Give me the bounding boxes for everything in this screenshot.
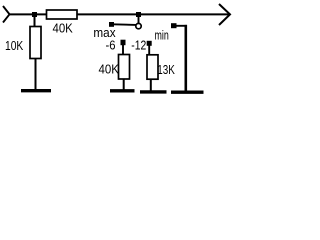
wire 10K to ground: [35, 59, 37, 90]
ground under 10K: [21, 89, 51, 92]
svg-text:-12: -12: [131, 39, 146, 53]
svg-text:10K: 10K: [5, 39, 24, 53]
switch pole circle: [136, 23, 141, 28]
switch lever wire to max: [113, 23, 136, 26]
resistor 10K: [30, 27, 41, 59]
wire series resistor to output: [77, 13, 229, 15]
svg-text:40K: 40K: [53, 21, 74, 35]
wire node to 10K: [34, 14, 36, 27]
terminal -6: [121, 40, 126, 46]
terminal -12: [147, 41, 152, 46]
wire input to series resistor: [10, 13, 48, 15]
wire 13K to ground: [150, 79, 152, 90]
svg-text:min: min: [155, 28, 169, 42]
node junction switch: [136, 12, 141, 17]
wire 40K shunt to ground: [123, 79, 125, 90]
ground right: [171, 90, 204, 93]
terminal min: [171, 23, 177, 28]
svg-text:13K: 13K: [157, 63, 175, 77]
terminal max: [109, 22, 114, 27]
svg-text:-6: -6: [106, 39, 116, 53]
resistor 40K series: [47, 10, 78, 19]
wire min terminal to right: [176, 25, 187, 27]
svg-text:40K: 40K: [99, 63, 120, 77]
node junction left: [32, 12, 37, 17]
output arrowhead: [219, 4, 230, 25]
resistor 40K shunt: [119, 55, 130, 80]
wire -12 to 13K: [148, 45, 150, 55]
ground under 13K: [140, 90, 167, 93]
wire -6 to 40K shunt: [122, 45, 124, 56]
wire min down to ground: [185, 25, 188, 91]
input arrowhead: [3, 6, 10, 23]
resistor 13K: [147, 55, 158, 79]
wire node to switch pole: [138, 14, 140, 24]
ground under 40K shunt: [110, 89, 135, 92]
